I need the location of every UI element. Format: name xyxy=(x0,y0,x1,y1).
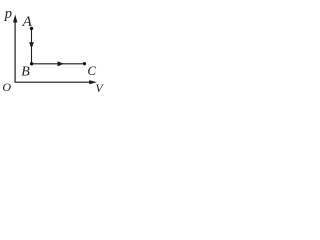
svg-text:B: B xyxy=(21,65,30,80)
node C dot xyxy=(83,62,86,65)
svg-text:C: C xyxy=(87,63,96,78)
svg-text:V: V xyxy=(95,81,104,95)
p axis (vertical) xyxy=(13,14,17,82)
svg-text:O: O xyxy=(2,80,11,94)
wire B to C (horizontal segment) xyxy=(32,63,85,65)
node A dot xyxy=(30,27,33,30)
svg-text:p: p xyxy=(4,6,12,22)
wire A to B (vertical segment) xyxy=(31,29,33,64)
arrowhead right (mid B-C) xyxy=(58,61,64,66)
node B dot xyxy=(30,62,33,65)
svg-text:A: A xyxy=(22,14,33,30)
arrowhead down (mid A-B) xyxy=(29,42,34,48)
V axis (horizontal) xyxy=(15,80,98,84)
